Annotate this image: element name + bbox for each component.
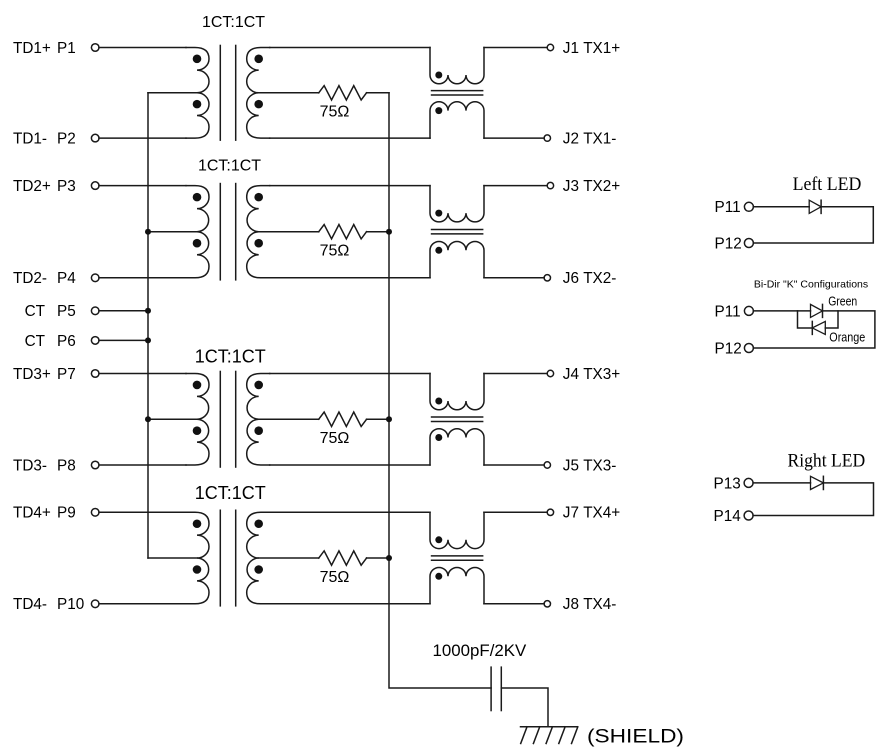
wire P4 to T2 primary bottom (99, 277, 186, 279)
svg-text:P2: P2 (57, 131, 76, 148)
LED D3 orange (reverse) (812, 321, 825, 334)
wire choke L3 to terminal J4 (484, 373, 547, 375)
svg-text:Green: Green (828, 294, 857, 308)
svg-text:(SHIELD): (SHIELD) (587, 726, 684, 748)
svg-text:P13: P13 (714, 475, 741, 492)
svg-text:J4: J4 (563, 366, 580, 383)
pin P5 (CT) (91, 307, 99, 315)
svg-text:TX4+: TX4+ (583, 505, 620, 522)
svg-text:Orange: Orange (829, 331, 865, 345)
terminal J2 (544, 135, 550, 141)
wire choke L1 to terminal J1 (484, 47, 547, 49)
pin P4 (TD2-) (91, 274, 99, 282)
wire P11 to LED D1 anode (753, 206, 809, 208)
choke L4 bottom winding with dot (430, 568, 484, 604)
choke L4 top winding with dot (430, 512, 484, 548)
wire P6 to CT bus (99, 339, 148, 341)
wire T4 primary center tap to CT bus (148, 557, 197, 559)
svg-text:1CT:1CT: 1CT:1CT (195, 483, 266, 503)
LED D2 green (811, 304, 823, 317)
wire shield bus (right vertical) to capacitor (389, 93, 491, 688)
terminal J4 (547, 370, 553, 376)
svg-text:1CT:1CT: 1CT:1CT (198, 158, 261, 175)
transformer T2 primary winding with polarity dots (186, 186, 209, 278)
pin P3 (TD2+) (91, 182, 99, 190)
wire T3 secondary center tap to resistor (259, 418, 319, 420)
svg-text:P4: P4 (57, 270, 76, 287)
svg-text:1CT:1CT: 1CT:1CT (202, 14, 265, 31)
choke L2 top winding with dot (430, 186, 484, 222)
junction CT bus at P6 (145, 337, 151, 343)
wire T1 secondary top to choke L1 (270, 47, 430, 49)
wire T2 secondary center tap to resistor (259, 231, 319, 233)
svg-text:P8: P8 (57, 457, 76, 474)
transformer T4 primary winding with polarity dots (186, 512, 209, 604)
svg-text:1CT:1CT: 1CT:1CT (195, 347, 266, 367)
wire T3 secondary top to choke L3 (270, 373, 430, 375)
svg-text:P11: P11 (715, 199, 741, 216)
svg-text:TX1-: TX1- (583, 131, 616, 148)
svg-text:TD3+: TD3+ (13, 366, 51, 383)
pin P14 (744, 511, 753, 520)
wire capacitor to shield ground (501, 688, 548, 727)
wire CT bus (left vertical) (147, 93, 149, 558)
transformer T2 secondary winding with polarity dots (247, 186, 270, 278)
svg-text:CT: CT (25, 333, 45, 350)
wire resistor 4 to shield bus (367, 557, 389, 559)
svg-text:P12: P12 (715, 340, 742, 357)
pin P6 (CT) (91, 337, 99, 345)
wire resistor 3 to shield bus (367, 418, 389, 420)
junction CT bus at P5 (145, 308, 151, 314)
terminal J1 (547, 44, 553, 50)
svg-text:J1: J1 (563, 40, 579, 57)
ground symbol (chassis/shield) (521, 727, 578, 744)
pin P7 (TD3+) (91, 370, 99, 378)
wire P8 to T3 primary bottom (99, 464, 186, 466)
transformer T3 core (220, 371, 235, 468)
wire P1 to T1 primary top (99, 47, 186, 49)
resistor 75ohm (channel 3) (319, 412, 367, 426)
wire T4 secondary center tap to resistor (259, 557, 319, 559)
wire T4 secondary top to choke L4 (270, 511, 430, 513)
wire LED D1 cathode to P12 (753, 207, 873, 243)
wire choke L4 to terminal J8 (484, 603, 544, 605)
svg-text:75Ω: 75Ω (320, 104, 350, 121)
junction CT bus at T2 center tap (145, 229, 151, 235)
wire resistor 1 to shield bus (367, 92, 389, 94)
svg-text:75Ω: 75Ω (320, 430, 350, 447)
svg-text:P14: P14 (714, 508, 742, 525)
transformer T4 secondary winding with polarity dots (247, 512, 270, 604)
pin P12 (744, 239, 753, 248)
wire P5 to CT bus (99, 310, 148, 312)
transformer T4 core (220, 510, 235, 607)
wire T4 secondary bottom to choke L4 (270, 603, 430, 605)
transformer T1 primary winding with polarity dots (186, 48, 209, 139)
pin P2 (TD1-) (91, 134, 99, 142)
junction shield bus at R3 (386, 416, 392, 422)
wire green LED cathode to P12 (753, 311, 875, 348)
svg-text:P6: P6 (57, 333, 76, 350)
svg-text:75Ω: 75Ω (320, 243, 350, 260)
wire bi-dir loop left branch (798, 311, 813, 328)
transformer T2 core (220, 183, 235, 281)
svg-text:J2: J2 (563, 131, 579, 148)
wire choke L4 to terminal J7 (484, 511, 547, 513)
svg-text:Left LED: Left LED (793, 174, 862, 195)
svg-text:TX3-: TX3- (583, 457, 616, 474)
svg-text:TX4-: TX4- (583, 596, 616, 613)
LED D4 (right LED diode) (811, 476, 824, 489)
svg-text:TD1-: TD1- (13, 131, 47, 148)
svg-text:P5: P5 (57, 303, 76, 320)
svg-text:J8: J8 (563, 596, 579, 613)
wire P13 to LED D4 anode (753, 482, 810, 484)
svg-text:P10: P10 (57, 596, 84, 613)
choke L1 core (431, 91, 484, 95)
svg-text:P9: P9 (57, 505, 76, 522)
transformer T1 core (220, 45, 235, 141)
wire P2 to T1 primary bottom (99, 137, 186, 139)
choke L1 bottom winding with dot (430, 102, 484, 138)
wire LED D4 cathode to P14 (753, 483, 873, 516)
svg-text:TD2+: TD2+ (13, 178, 51, 195)
svg-text:75Ω: 75Ω (320, 569, 350, 586)
wire T1 primary center tap to CT bus (148, 92, 197, 94)
svg-text:J6: J6 (563, 270, 579, 287)
svg-text:TX2-: TX2- (583, 270, 616, 287)
terminal J6 (544, 275, 550, 281)
svg-text:J5: J5 (563, 457, 579, 474)
wire T2 secondary top to choke L2 (270, 185, 430, 187)
svg-text:J7: J7 (563, 505, 579, 522)
pin P9 (TD4+) (91, 509, 99, 517)
svg-text:Bi-Dir "K" Configurations: Bi-Dir "K" Configurations (754, 279, 868, 291)
transformer T3 secondary winding with polarity dots (247, 374, 270, 466)
svg-text:P12: P12 (715, 235, 742, 252)
svg-text:CT: CT (25, 303, 45, 320)
wire T2 primary center tap to CT bus (148, 231, 197, 233)
terminal J5 (544, 462, 550, 468)
pin P10 (TD4-) (91, 600, 99, 608)
svg-text:TD3-: TD3- (13, 457, 47, 474)
wire T1 secondary bottom to choke L1 (270, 137, 430, 139)
wire choke L2 to terminal J3 (484, 185, 547, 187)
terminal J8 (544, 601, 550, 607)
choke L2 core (431, 230, 484, 234)
choke L2 bottom winding with dot (430, 242, 484, 278)
svg-text:P7: P7 (57, 366, 76, 383)
svg-text:TX3+: TX3+ (583, 366, 620, 383)
pin P13 (744, 478, 753, 487)
terminal J7 (547, 509, 553, 515)
pin P12 (bi-dir) (744, 344, 753, 353)
capacitor C1 1000pF/2KV (491, 666, 501, 711)
LED D1 (left LED diode) (809, 200, 821, 213)
svg-text:TD2-: TD2- (13, 270, 47, 287)
svg-text:Right LED: Right LED (788, 450, 866, 471)
choke L4 core (431, 556, 484, 560)
choke L3 core (431, 417, 484, 421)
choke L3 top winding with dot (430, 374, 484, 410)
transformer T1 secondary winding with polarity dots (247, 48, 270, 139)
wire bi-dir loop right branch (825, 311, 838, 328)
svg-text:TD1+: TD1+ (13, 40, 51, 57)
svg-text:J3: J3 (563, 178, 579, 195)
junction shield bus at R4 (386, 555, 392, 561)
wire T3 secondary bottom to choke L3 (270, 464, 430, 466)
wire T3 primary center tap to CT bus (148, 418, 197, 420)
wire choke L3 to terminal J5 (484, 464, 544, 466)
svg-text:TD4-: TD4- (13, 596, 47, 613)
svg-text:1000pF/2KV: 1000pF/2KV (433, 642, 527, 660)
svg-text:TX2+: TX2+ (583, 178, 620, 195)
wire P3 to T2 primary top (99, 185, 186, 187)
resistor 75ohm (channel 1) (319, 86, 367, 100)
junction CT bus at T3 center tap (145, 416, 151, 422)
choke L1 top winding with dot (430, 48, 484, 84)
wire P11 to green LED anode (753, 310, 810, 312)
pin P11 (bi-dir) (744, 306, 753, 315)
wire P10 to T4 primary bottom (99, 603, 186, 605)
resistor 75ohm (channel 4) (319, 551, 367, 565)
svg-text:P3: P3 (57, 178, 76, 195)
resistor 75ohm (channel 2) (319, 225, 367, 239)
wire T2 secondary bottom to choke L2 (270, 277, 430, 279)
junction shield bus at R2 (386, 229, 392, 235)
svg-text:TX1+: TX1+ (583, 40, 620, 57)
svg-text:P1: P1 (57, 40, 76, 57)
pin P11 (744, 202, 753, 211)
svg-text:P11: P11 (715, 303, 741, 320)
wire P9 to T4 primary top (99, 511, 186, 513)
svg-text:TD4+: TD4+ (13, 505, 51, 522)
wire T1 secondary center tap to resistor (259, 92, 319, 94)
pin P1 (TD1+) (91, 44, 99, 52)
wire resistor 2 to shield bus (367, 231, 389, 233)
pin P8 (TD3-) (91, 461, 99, 469)
transformer T3 primary winding with polarity dots (186, 374, 209, 466)
wire P7 to T3 primary top (99, 373, 186, 375)
wire choke L2 to terminal J6 (484, 277, 544, 279)
terminal J3 (547, 182, 553, 188)
choke L3 bottom winding with dot (430, 429, 484, 465)
wire choke L1 to terminal J2 (484, 137, 544, 139)
